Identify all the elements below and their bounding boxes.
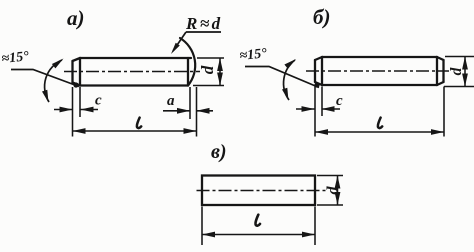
script letter l (b)	[378, 118, 382, 128]
dimension l (a)	[73, 130, 197, 132]
extension lines pin C	[202, 176, 343, 246]
angle dimension arc (a) with arrows	[45, 60, 62, 102]
dimension l (b)	[315, 131, 444, 133]
svg-text:в): в)	[211, 141, 227, 163]
junction blob at pin A lower-left corner	[73, 82, 78, 87]
svg-text:d: d	[448, 67, 465, 75]
pin A body outline (chamfered left end, rounded right end)	[73, 58, 192, 86]
svg-text:≈15°: ≈15°	[239, 46, 268, 64]
pin B centerline	[306, 70, 449, 72]
pin C centerline	[197, 190, 329, 192]
pin A centerline	[64, 71, 200, 73]
dimension l (v)	[202, 234, 315, 236]
script letter l (a)	[137, 118, 141, 128]
junction blob at pin B lower-left corner	[314, 82, 319, 87]
dimension d (v)	[337, 176, 339, 206]
extension lines pin A	[73, 58, 225, 137]
extension lines pin B	[315, 57, 474, 137]
svg-text:d: d	[325, 186, 342, 195]
svg-text:а): а)	[67, 6, 85, 30]
svg-text:a: a	[167, 93, 175, 109]
pin A rounded end construction arc R~d	[180, 38, 195, 86]
svg-text:R≈d: R≈d	[185, 14, 223, 33]
svg-text:б): б)	[313, 5, 330, 29]
svg-text:c: c	[336, 93, 343, 109]
svg-text:≈15°: ≈15°	[1, 49, 30, 67]
svg-text:c: c	[95, 93, 102, 109]
pin C body outline (plain)	[202, 176, 315, 206]
pin B body outline (chamfered both ends)	[315, 57, 444, 85]
script letter l (v)	[255, 215, 260, 226]
svg-text:d: d	[198, 65, 217, 74]
angle dimension arc (b) with arrows	[284, 60, 295, 100]
dimension d (b)	[464, 57, 466, 87]
dimension d (a)	[219, 58, 221, 86]
